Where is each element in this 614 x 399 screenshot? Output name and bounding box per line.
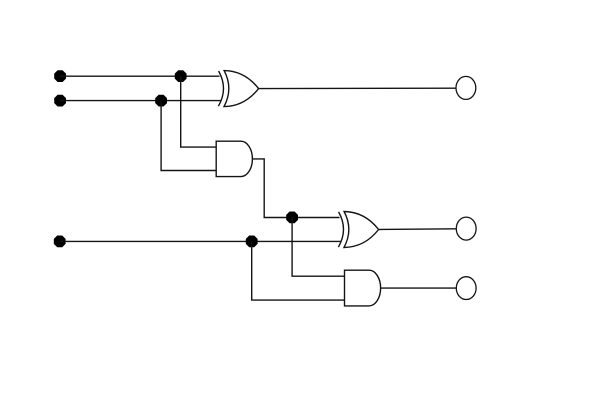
wire C to XOR2 bottom input <box>60 240 341 242</box>
and gate U4 (AND) <box>345 270 381 306</box>
input pin A <box>55 71 66 82</box>
node B junction <box>156 95 167 106</box>
input pin B <box>55 95 66 106</box>
output pin S2 (circle) <box>456 217 476 240</box>
wire from node C down to AND2 bottom input <box>252 241 345 300</box>
node A junction <box>175 71 186 82</box>
wire XOR1 output <box>259 87 456 89</box>
wire AND1 output to XOR2 top input <box>252 159 339 218</box>
wire from node A down to AND1 top input <box>181 76 217 147</box>
wire A to XOR1 top input <box>60 75 220 77</box>
node D junction (carry internal) <box>287 212 298 223</box>
wire AND2 output <box>381 287 457 289</box>
xor gate U1 (XOR) <box>218 71 258 107</box>
wire from node D down to AND2 top input <box>292 218 344 277</box>
wire XOR2 output <box>379 228 457 231</box>
output pin S (circle) <box>456 76 476 99</box>
output pin S3 (circle) <box>456 277 476 300</box>
wire B to XOR1 bottom input <box>60 100 221 102</box>
node C junction <box>246 236 257 247</box>
wire from node B down to AND1 bottom input <box>161 101 216 171</box>
and gate U2 (AND) <box>216 141 252 176</box>
input pin C (carry in) <box>54 236 65 247</box>
xor gate U3 (XOR) <box>338 212 378 248</box>
